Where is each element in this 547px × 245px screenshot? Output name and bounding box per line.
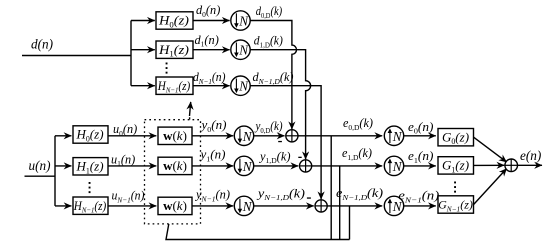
svg-text:u1(n): u1(n) xyxy=(111,152,135,168)
svg-text:e1(n): e1(n) xyxy=(408,149,433,165)
svg-text:N: N xyxy=(238,79,249,94)
svg-text:H1(z): H1(z) xyxy=(75,159,103,176)
svg-text:N: N xyxy=(238,14,249,29)
svg-text:N: N xyxy=(392,159,403,174)
svg-text:d0(n): d0(n) xyxy=(196,3,220,19)
svg-text:y1(n): y1(n) xyxy=(198,148,225,164)
svg-text:y0(n): y0(n) xyxy=(199,118,226,134)
svg-text:N: N xyxy=(238,43,249,58)
svg-text:N: N xyxy=(392,129,403,144)
svg-text:H0(z): H0(z) xyxy=(158,13,189,30)
svg-text:d(n): d(n) xyxy=(31,36,53,51)
svg-text:w(k): w(k) xyxy=(163,158,187,173)
svg-text:e(n): e(n) xyxy=(520,148,541,163)
svg-text:w(k): w(k) xyxy=(163,128,187,143)
svg-text:H1(z): H1(z) xyxy=(158,42,189,59)
svg-text:u(n): u(n) xyxy=(29,158,51,173)
svg-text:N: N xyxy=(242,159,253,174)
svg-text:G1(z): G1(z) xyxy=(442,158,469,175)
svg-text:w(k): w(k) xyxy=(163,198,187,213)
svg-text:N: N xyxy=(242,199,253,214)
svg-text:G0(z): G0(z) xyxy=(442,129,469,146)
svg-text:u0(n): u0(n) xyxy=(113,122,137,138)
svg-text:e0(n): e0(n) xyxy=(408,120,433,136)
svg-text:N: N xyxy=(242,129,253,144)
svg-text:d1(n): d1(n) xyxy=(195,33,219,49)
svg-text:H0(z): H0(z) xyxy=(75,127,103,144)
